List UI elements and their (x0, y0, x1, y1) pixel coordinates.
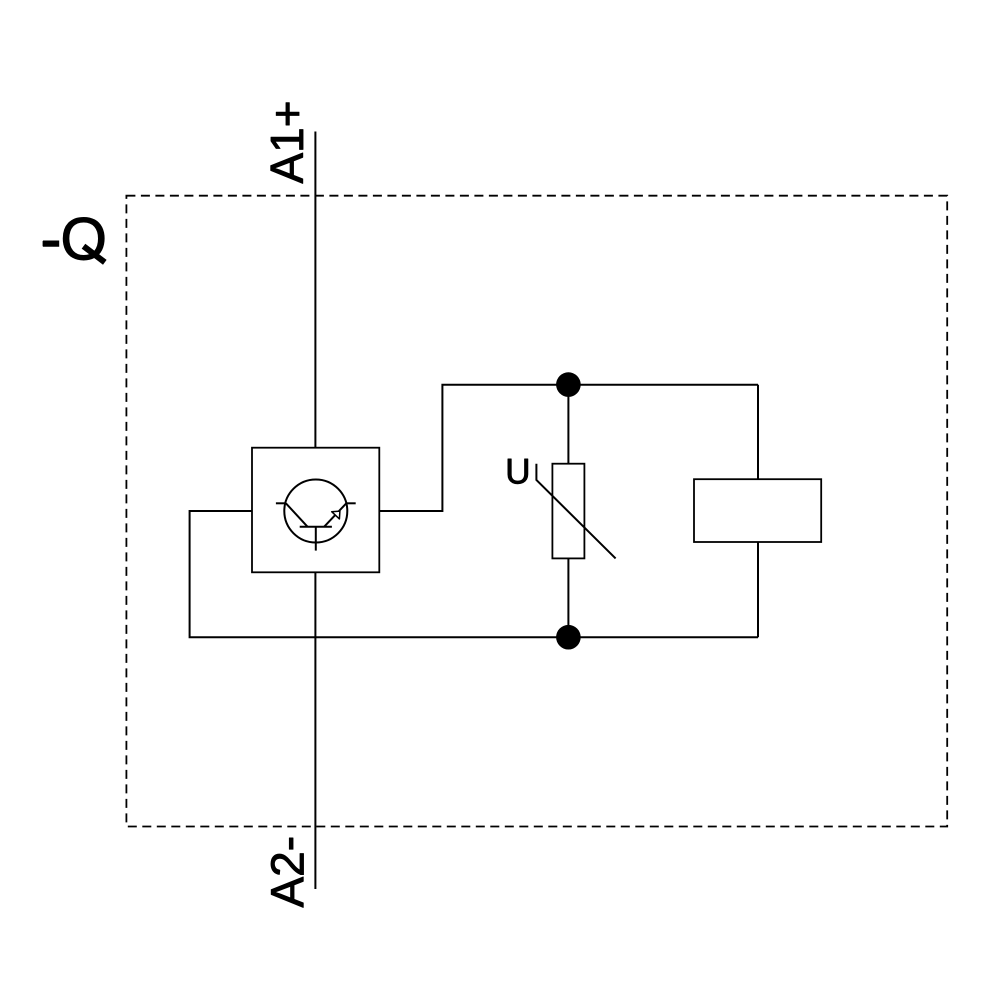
node junction bottom (556, 625, 581, 650)
transistor block box (252, 448, 379, 573)
svg-text:A2-: A2- (262, 836, 314, 908)
transistor Q1 (276, 480, 356, 551)
svg-text:A1+: A1+ (261, 100, 313, 183)
wire A1-A2 main vertical (314, 132, 316, 890)
node junction top (556, 372, 581, 397)
svg-text:-O: -O (40, 205, 107, 272)
svg-text:U: U (505, 453, 530, 492)
wire right of transistor box up to top rail (379, 385, 566, 511)
varistor RV1 symbol stroke (tick + diagonal) (536, 464, 615, 559)
enclosure dashed boundary (126, 196, 947, 827)
wire right vertical through coil (757, 385, 759, 637)
wire bottom rail right segment (568, 636, 758, 638)
wire left loop from transistor box to bottom rail (190, 511, 566, 637)
wire varistor branch vertical (567, 385, 569, 637)
relay coil K1 (694, 479, 821, 542)
varistor RV1 body (552, 464, 584, 559)
wire top rail right segment (568, 384, 758, 386)
